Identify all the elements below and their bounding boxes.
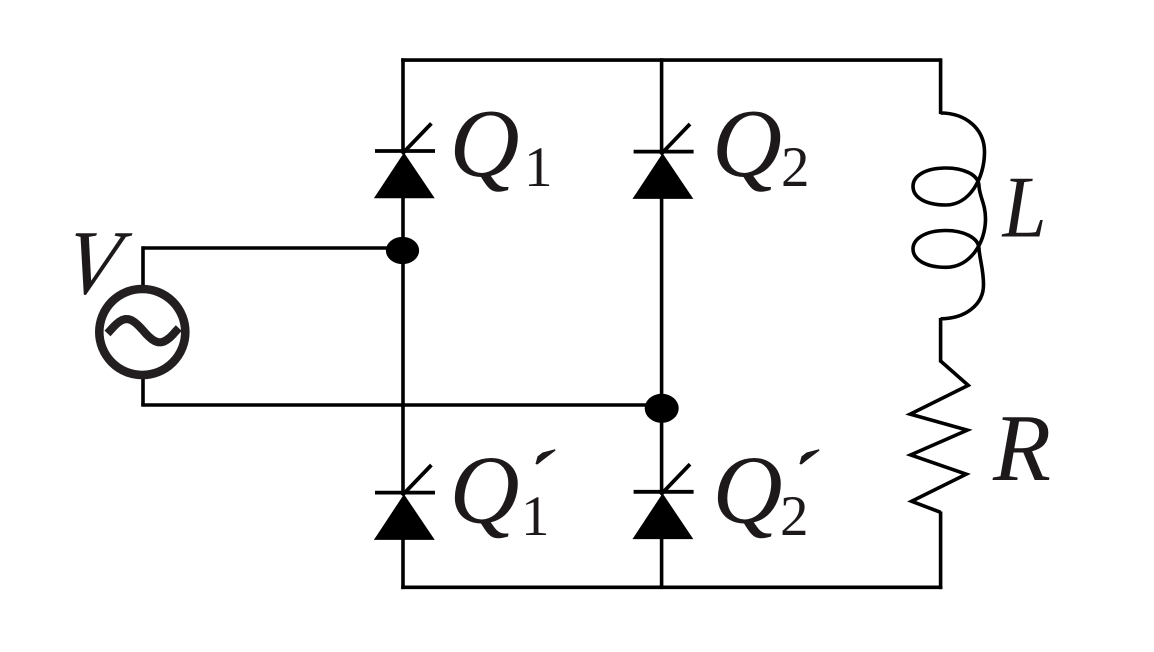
wire source top horizontal bbox=[143, 246, 403, 250]
svg-text:2: 2 bbox=[781, 136, 810, 199]
thyristor Q1' (lower left) bbox=[375, 465, 435, 539]
svg-text:1: 1 bbox=[521, 485, 550, 548]
wire left branch upper bbox=[401, 58, 405, 151]
wire right rail top bbox=[939, 58, 943, 114]
label V bbox=[58, 213, 136, 314]
AC source V circle bbox=[99, 289, 185, 375]
wire bottom rail bbox=[401, 585, 942, 589]
wire middle branch lower bbox=[660, 536, 664, 589]
resistor R zigzag bbox=[910, 361, 968, 512]
wire right rail bottom bbox=[939, 512, 943, 590]
svg-text:1: 1 bbox=[524, 136, 553, 199]
wire right rail between L and R bbox=[939, 318, 943, 362]
thyristor Q2' (lower middle) bbox=[633, 464, 693, 538]
wire source bottom horizontal bbox=[141, 403, 661, 407]
prime mark of Q1prime bbox=[536, 449, 556, 464]
svg-text:Q: Q bbox=[712, 90, 782, 197]
wire middle branch middle bbox=[660, 195, 664, 494]
wire middle branch upper bbox=[660, 58, 664, 151]
svg-text:2: 2 bbox=[780, 485, 809, 548]
node B junction dot bbox=[645, 394, 679, 423]
wire source bottom vertical bbox=[141, 377, 145, 405]
node A junction dot bbox=[386, 237, 419, 264]
svg-text:R: R bbox=[992, 395, 1051, 501]
svg-text:Q: Q bbox=[713, 437, 783, 544]
svg-text:Q: Q bbox=[450, 90, 520, 197]
prime mark of Q2prime bbox=[800, 449, 820, 464]
wire left branch lower bbox=[401, 537, 405, 590]
AC source sine wave bbox=[108, 319, 179, 342]
svg-text:L: L bbox=[1001, 160, 1047, 257]
thyristor Q1 bbox=[375, 123, 435, 197]
inductor L coil bbox=[913, 113, 986, 319]
svg-text:V: V bbox=[58, 213, 136, 314]
wire top rail bbox=[401, 58, 940, 62]
wire left branch middle bbox=[401, 196, 405, 494]
wire source top vertical bbox=[141, 246, 145, 286]
thyristor Q2 bbox=[633, 124, 693, 198]
svg-text:Q: Q bbox=[450, 437, 520, 544]
